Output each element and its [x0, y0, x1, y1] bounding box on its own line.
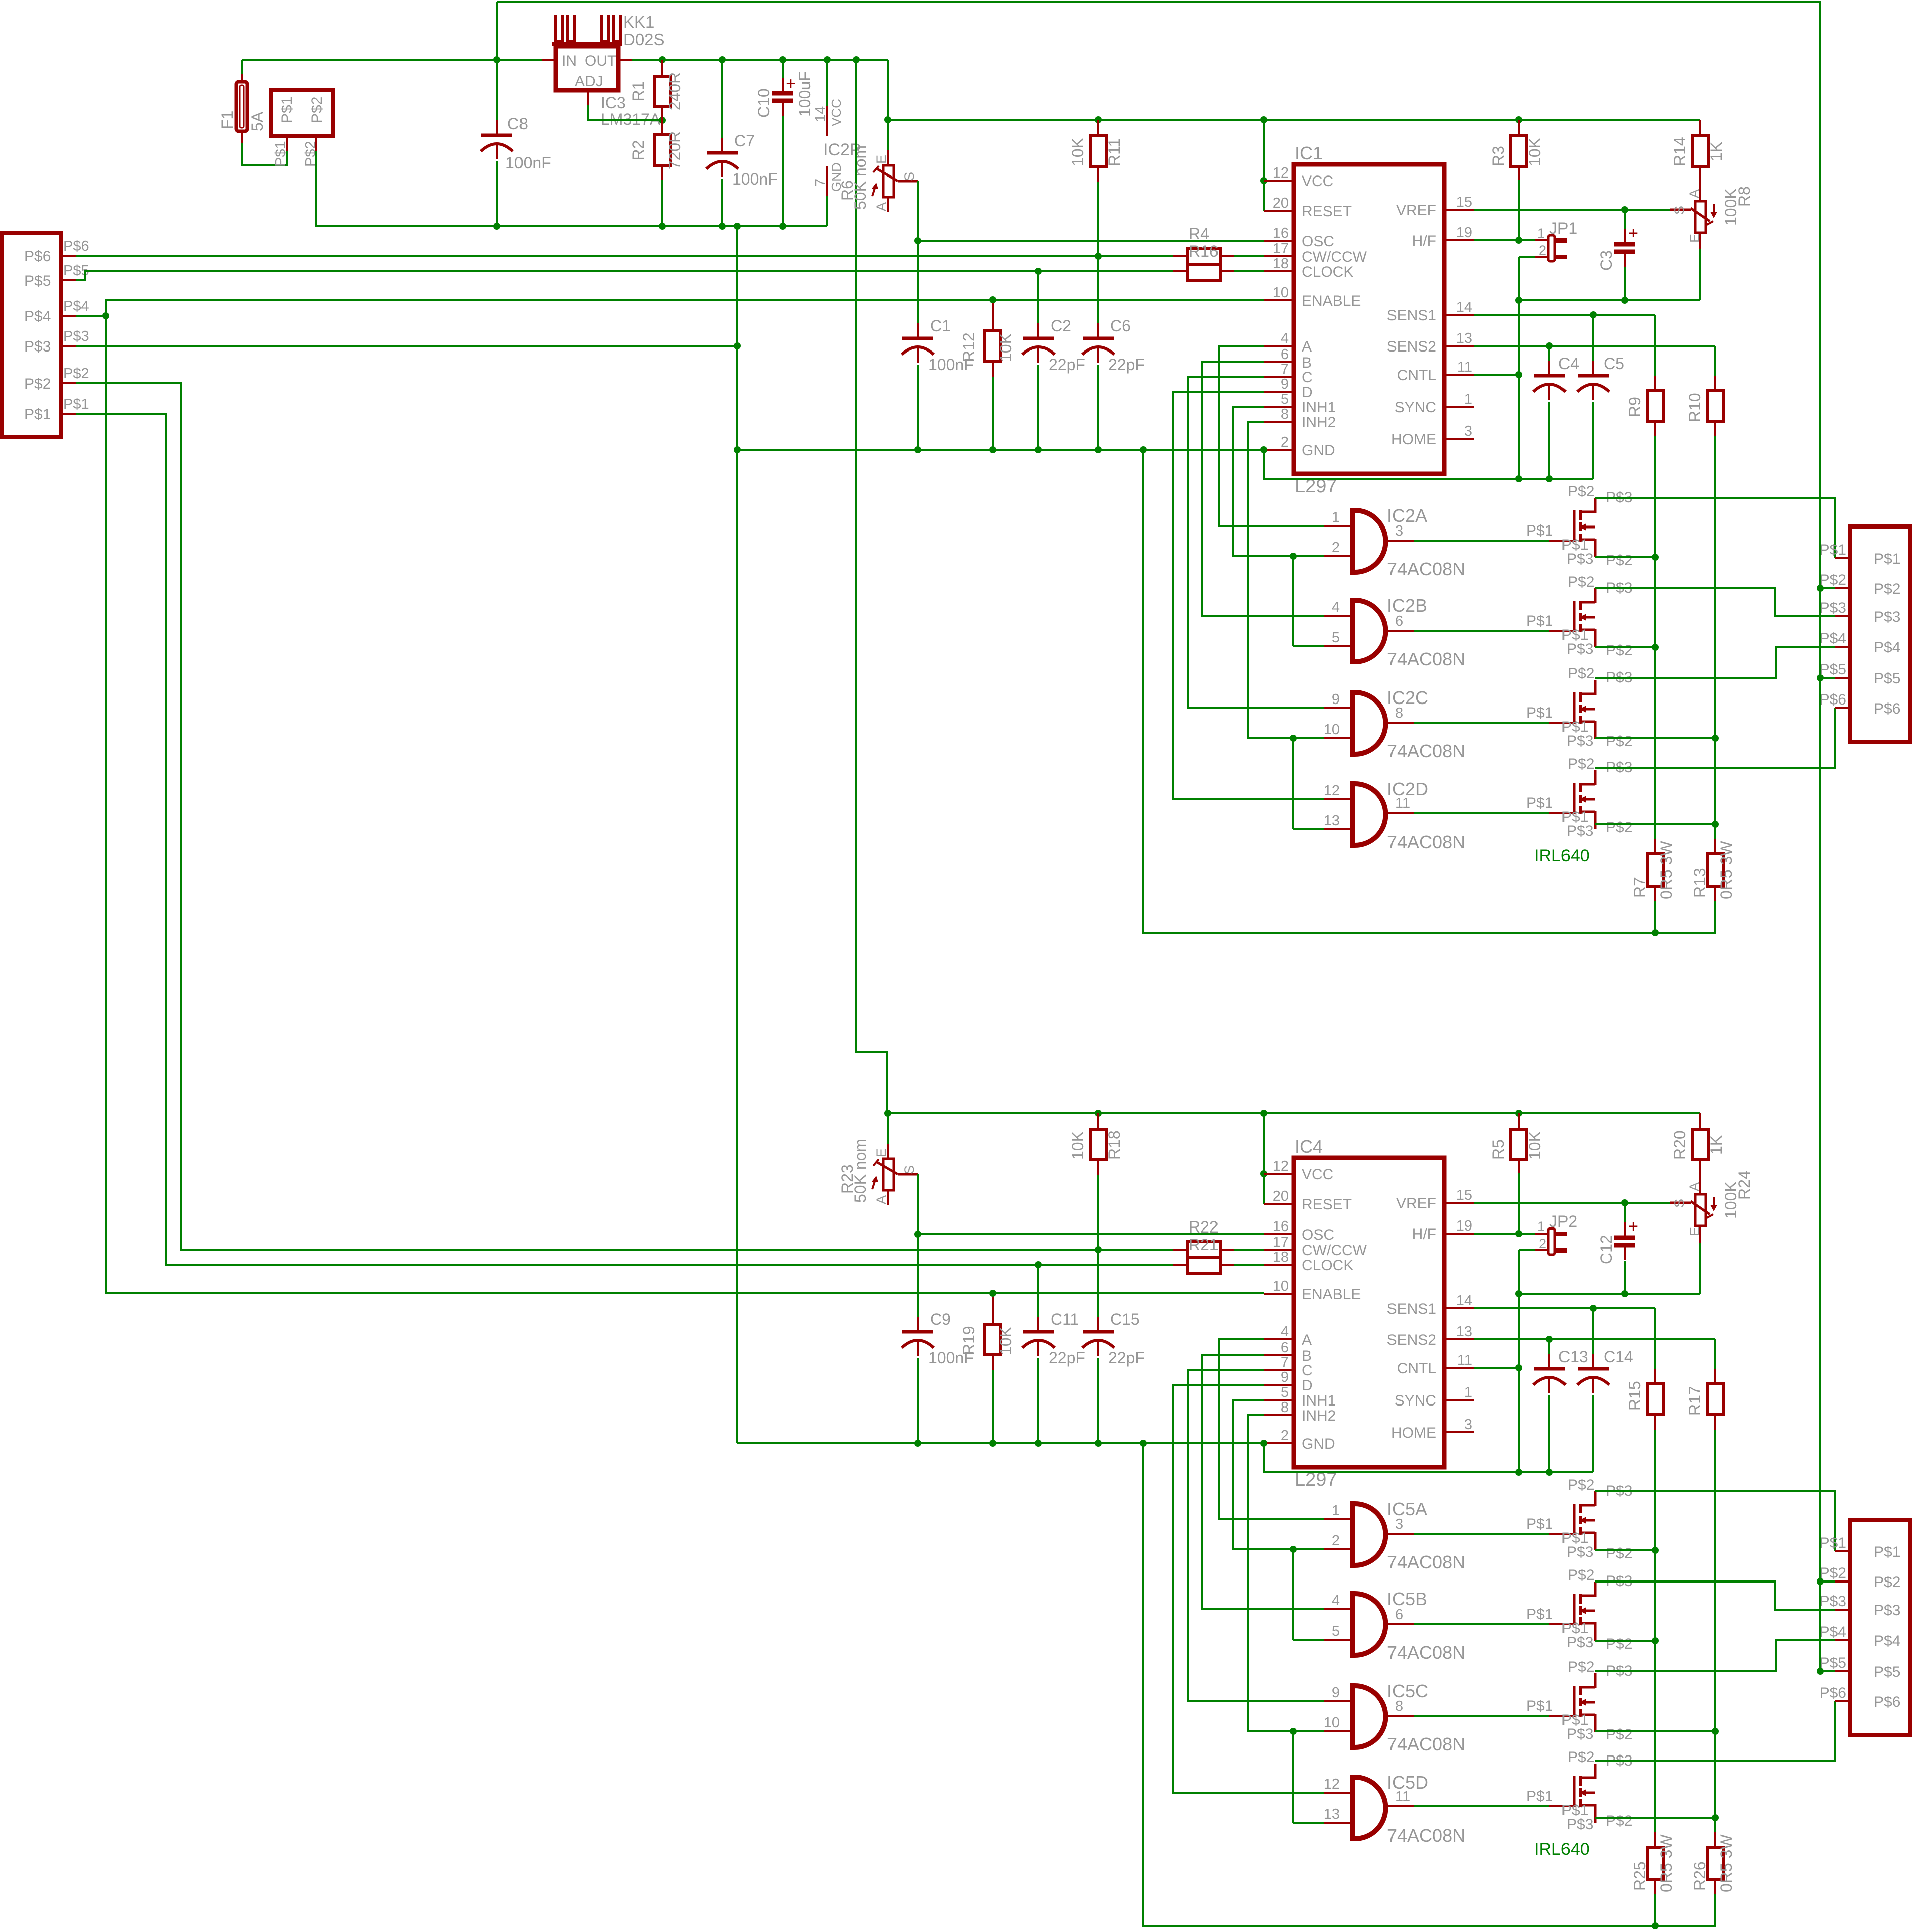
connector X1 control input	[2, 233, 61, 437]
svg-text:7: 7	[1281, 361, 1289, 377]
junction	[1095, 1246, 1102, 1253]
wire shunt ground	[1143, 1443, 1715, 1926]
svg-text:JP2: JP2	[1549, 1212, 1577, 1231]
wire pull-up to CW/CCW line	[1097, 182, 1099, 323]
wire H/F line	[1474, 239, 1535, 241]
svg-text:SENS1: SENS1	[1387, 307, 1436, 324]
svg-text:10K: 10K	[1526, 138, 1544, 166]
wire drain row d to P$6	[1595, 708, 1835, 768]
wire CNTL node vertical	[1518, 1294, 1520, 1472]
svg-text:10K: 10K	[1069, 1131, 1087, 1160]
svg-text:15: 15	[1456, 194, 1472, 210]
svg-text:17: 17	[1273, 1234, 1289, 1250]
AND gate IC2B 74AC08N	[1353, 600, 1386, 662]
svg-text:12: 12	[1273, 165, 1289, 181]
svg-text:74AC08N: 74AC08N	[1387, 1825, 1465, 1846]
wire cw cap bottom	[1097, 365, 1099, 450]
svg-text:S: S	[902, 172, 917, 181]
wire C7 top	[721, 60, 723, 138]
svg-text:C9: C9	[930, 1310, 951, 1328]
svg-text:P$1: P$1	[1526, 1698, 1553, 1714]
wire CNTL to node	[1474, 1367, 1519, 1369]
wire H/F pull-up vertical	[1518, 180, 1520, 240]
svg-text:3: 3	[1464, 423, 1472, 439]
wire VCC/RESET tie	[1263, 1113, 1265, 1204]
wire MOSFET source row b	[1595, 646, 1655, 648]
svg-text:P$1: P$1	[1874, 551, 1900, 567]
svg-text:IC4: IC4	[1295, 1136, 1323, 1157]
capacitor C3	[1624, 229, 1626, 244]
wire INH1 to gate inputs	[1293, 555, 1324, 557]
wire ENABLE to IC4 pin 10	[106, 316, 1264, 1293]
wire clk cap top	[1037, 271, 1039, 323]
wire osc cap bottom	[917, 1358, 919, 1443]
AND gate IC5A 74AC08N	[1353, 1504, 1386, 1565]
junction	[1515, 1469, 1522, 1476]
svg-text:16: 16	[1273, 225, 1289, 241]
svg-text:P$3: P$3	[24, 338, 51, 355]
svg-text:C13: C13	[1558, 1348, 1588, 1366]
svg-text:P$5: P$5	[24, 273, 51, 289]
svg-text:6: 6	[1281, 1340, 1289, 1356]
wire phase A	[1219, 346, 1324, 526]
jumper JP1	[1548, 235, 1555, 261]
svg-text:IC5A: IC5A	[1387, 1499, 1427, 1519]
svg-text:R18: R18	[1105, 1130, 1123, 1160]
wire osc cap bottom	[917, 365, 919, 450]
svg-text:P$3: P$3	[1567, 641, 1593, 657]
wire +V input vertical	[496, 2, 498, 60]
svg-text:12: 12	[1273, 1158, 1289, 1174]
junction	[1590, 311, 1597, 318]
svg-text:C: C	[1302, 369, 1313, 386]
wire SENS1 to R	[1654, 1308, 1656, 1369]
svg-text:11: 11	[1457, 359, 1472, 375]
junction	[1546, 1469, 1553, 1476]
resistor R16	[1188, 264, 1220, 280]
svg-text:P$2: P$2	[1568, 483, 1594, 500]
svg-text:P$3: P$3	[63, 328, 89, 344]
svg-text:1: 1	[1537, 1219, 1545, 1234]
svg-text:R10: R10	[1686, 393, 1704, 422]
wire C8 top	[496, 60, 498, 120]
trimpot R23	[883, 1159, 894, 1190]
wire motor supply to P$2	[1820, 587, 1835, 589]
svg-text:IC2B: IC2B	[1387, 595, 1427, 616]
svg-text:P$2: P$2	[1820, 572, 1846, 588]
svg-text:10K: 10K	[997, 333, 1015, 362]
wire phase B	[1202, 1355, 1324, 1609]
wire rail to trimpot E	[887, 120, 889, 150]
wire X2 P$2 to ground rail	[316, 151, 827, 226]
wire pull-up to CW/CCW line	[1097, 1175, 1099, 1317]
svg-text:0R5 3W: 0R5 3W	[1657, 841, 1675, 899]
junction	[1140, 1440, 1147, 1447]
svg-text:P$4: P$4	[1820, 630, 1846, 647]
svg-text:12: 12	[1324, 783, 1340, 799]
svg-text:IRL640: IRL640	[1534, 846, 1590, 865]
resistor R7 0R5 3W	[1654, 839, 1656, 854]
junction	[1035, 1261, 1042, 1268]
svg-text:14: 14	[813, 106, 829, 122]
svg-text:P$6: P$6	[1874, 700, 1900, 717]
svg-text:IC2D: IC2D	[1387, 779, 1428, 799]
svg-text:P$3: P$3	[1820, 600, 1846, 616]
junction	[1546, 1336, 1553, 1343]
svg-text:A: A	[1302, 338, 1312, 355]
svg-text:P$1: P$1	[1820, 542, 1846, 558]
wire phase C	[1188, 377, 1324, 708]
svg-text:P$1: P$1	[63, 396, 89, 412]
resistor R13 0R5 3W	[1714, 839, 1716, 854]
svg-text:D: D	[1302, 384, 1313, 401]
svg-text:IN: IN	[562, 53, 577, 69]
junction	[734, 342, 741, 349]
svg-text:10: 10	[1324, 1715, 1340, 1731]
svg-text:P$2: P$2	[1606, 642, 1632, 659]
wire clk cap bottom	[1037, 1358, 1039, 1443]
svg-text:P$4: P$4	[1874, 1633, 1900, 1649]
svg-text:7: 7	[1281, 1354, 1289, 1370]
wire phase D	[1173, 1385, 1324, 1793]
wire trimpot S to OSC	[917, 1174, 919, 1234]
svg-text:CLOCK: CLOCK	[1302, 1257, 1353, 1274]
svg-text:CW/CCW: CW/CCW	[1302, 249, 1367, 265]
svg-text:10K: 10K	[1526, 1131, 1544, 1160]
svg-text:HOME: HOME	[1391, 1425, 1436, 1441]
svg-text:20: 20	[1273, 1188, 1289, 1204]
svg-text:P$4: P$4	[1874, 639, 1900, 656]
junction	[1515, 116, 1522, 123]
wire INH1 to gate inputs	[1293, 1548, 1324, 1550]
svg-text:R26: R26	[1691, 1861, 1709, 1891]
svg-text:SENS2: SENS2	[1387, 1332, 1436, 1348]
svg-text:P$1: P$1	[273, 141, 289, 167]
svg-text:VCC: VCC	[1302, 1166, 1333, 1183]
resistor R17	[1707, 1384, 1723, 1415]
junction	[1515, 1110, 1522, 1117]
svg-text:VCC: VCC	[1302, 173, 1333, 190]
svg-text:19: 19	[1456, 225, 1472, 241]
resistor R25 0R5 3W	[1654, 1832, 1656, 1847]
svg-text:C8: C8	[507, 115, 528, 133]
svg-text:4: 4	[1281, 330, 1289, 346]
svg-text:P$2: P$2	[1568, 665, 1594, 682]
svg-text:P$5: P$5	[1874, 1664, 1900, 1680]
trimpot R24	[1695, 1194, 1706, 1226]
AND gate IC5C 74AC08N	[1353, 1686, 1386, 1747]
svg-text:+: +	[786, 74, 796, 93]
svg-text:C: C	[1302, 1362, 1313, 1379]
resistor R5 10K	[1511, 1129, 1527, 1160]
svg-text:P$5: P$5	[1874, 670, 1900, 687]
svg-text:E: E	[874, 1148, 889, 1157]
wire motor supply to P$5	[1820, 1670, 1835, 1672]
capacitor C14	[1592, 1354, 1594, 1369]
svg-text:P$5: P$5	[1820, 661, 1846, 678]
svg-text:INH1: INH1	[1302, 399, 1336, 416]
svg-text:2: 2	[1281, 434, 1289, 450]
wire SENS1 to R	[1654, 315, 1656, 376]
wire INH1	[1233, 407, 1293, 556]
svg-text:+: +	[1628, 1217, 1638, 1236]
svg-text:2: 2	[1539, 243, 1546, 258]
trimpot R8	[1695, 201, 1706, 233]
svg-text:JP1: JP1	[1549, 219, 1577, 237]
resistor R26 0R5 3W	[1714, 1832, 1716, 1847]
svg-text:INH2: INH2	[1302, 1408, 1336, 1424]
junction	[1712, 821, 1719, 828]
wire gate output to MOSFET gate	[1414, 812, 1549, 814]
junction	[659, 56, 666, 63]
wire JP pin2	[1519, 256, 1535, 258]
junction	[1621, 297, 1628, 304]
svg-text:100nF: 100nF	[505, 154, 551, 172]
wire enable res bottom	[992, 1370, 994, 1443]
wire OSC line	[918, 240, 1264, 242]
junction	[719, 223, 726, 230]
svg-text:P$2: P$2	[24, 376, 51, 392]
svg-text:P$1: P$1	[1820, 1535, 1846, 1551]
wire INH1	[1233, 1400, 1293, 1549]
capacitor C11	[1037, 1317, 1039, 1332]
svg-text:E: E	[874, 155, 889, 164]
junction	[493, 223, 500, 230]
svg-text:P$1: P$1	[1526, 705, 1553, 721]
wire CNTL node line	[1519, 299, 1700, 301]
resistor R20 1K	[1692, 1129, 1708, 1160]
svg-text:5: 5	[1332, 630, 1340, 646]
wire phase A	[1219, 1339, 1324, 1519]
junction	[1290, 1728, 1297, 1735]
svg-text:INH1: INH1	[1302, 1392, 1336, 1409]
wire INH2 to gate inputs	[1293, 1730, 1324, 1732]
svg-text:R12: R12	[960, 332, 978, 362]
junction	[1546, 475, 1553, 482]
wire Cv top	[1624, 210, 1626, 229]
wire gate output to MOSFET gate	[1414, 1715, 1549, 1717]
junction	[779, 223, 786, 230]
transistor IRL640 row d	[1549, 812, 1575, 814]
junction	[1515, 1290, 1522, 1297]
resistor R22	[1188, 1242, 1220, 1258]
svg-text:13: 13	[1324, 1806, 1340, 1822]
wire SENS1 line	[1474, 1307, 1655, 1309]
wire gate output to MOSFET gate	[1414, 630, 1549, 632]
svg-text:5A: 5A	[248, 111, 266, 131]
wire motor supply to P$5	[1820, 677, 1835, 679]
wire MOSFET source row a	[1595, 556, 1655, 558]
svg-text:P$2: P$2	[1606, 1813, 1632, 1829]
resistor R2 720R	[654, 135, 670, 165]
svg-text:D02S: D02S	[623, 30, 665, 49]
svg-text:R5: R5	[1489, 1139, 1507, 1160]
wire JP pin2	[1519, 1249, 1535, 1251]
wire GND rail	[737, 449, 1264, 451]
svg-text:CNTL: CNTL	[1397, 367, 1436, 384]
junction	[989, 296, 996, 303]
capacitor C13	[1548, 1354, 1550, 1369]
wire CNTL node vertical	[1518, 300, 1520, 479]
junction	[989, 1290, 996, 1297]
svg-text:10: 10	[1273, 1278, 1289, 1294]
wire clk cap top	[1037, 1265, 1039, 1317]
svg-text:P$2: P$2	[1606, 1636, 1632, 1652]
junction	[914, 237, 921, 244]
capacitor C1	[917, 323, 919, 338]
wire +5V rail from OUT	[618, 59, 632, 61]
svg-text:SYNC: SYNC	[1395, 399, 1436, 416]
junction	[1260, 116, 1267, 123]
svg-text:0R5 3W: 0R5 3W	[1657, 1834, 1675, 1892]
junction	[1817, 1578, 1824, 1585]
wire fuse to connector X2 pin P$1	[241, 131, 243, 143]
svg-text:1: 1	[1537, 226, 1545, 241]
svg-text:1: 1	[1464, 391, 1472, 407]
svg-text:R17: R17	[1686, 1386, 1704, 1416]
wire osc cap top	[917, 1234, 919, 1317]
wire enable res bottom	[992, 377, 994, 450]
junction	[989, 446, 996, 453]
connector X2 power input	[271, 90, 333, 136]
svg-text:C5: C5	[1604, 355, 1624, 373]
svg-text:R22: R22	[1189, 1218, 1219, 1236]
svg-text:74AC08N: 74AC08N	[1387, 559, 1465, 579]
junction	[884, 116, 891, 123]
svg-text:HOME: HOME	[1391, 431, 1436, 448]
svg-text:P$2: P$2	[1568, 1749, 1594, 1766]
svg-text:SYNC: SYNC	[1395, 1392, 1436, 1409]
resistor R11	[1090, 136, 1106, 166]
svg-text:9: 9	[1281, 376, 1289, 392]
transistor IRL640 row a	[1549, 540, 1575, 542]
svg-text:C3: C3	[1597, 250, 1615, 271]
junction	[853, 56, 860, 63]
junction	[1035, 268, 1042, 275]
resistor R18	[1090, 1129, 1106, 1160]
wire drain row b to P$3	[1595, 1582, 1835, 1610]
transistor IRL640 row b	[1549, 1623, 1575, 1625]
svg-text:2: 2	[1281, 1428, 1289, 1444]
resistor R3 10K	[1511, 136, 1527, 166]
wire sense bus 2	[1714, 1430, 1716, 1832]
svg-text:P$2: P$2	[1568, 1567, 1594, 1584]
svg-text:2: 2	[1539, 1236, 1546, 1251]
svg-text:18: 18	[1273, 1249, 1289, 1265]
wire CW/CCW 2 from P$2 to section 2	[76, 383, 1173, 1250]
wire cw cap bottom	[1097, 1358, 1099, 1443]
svg-text:R1: R1	[629, 81, 647, 102]
svg-text:6: 6	[1281, 346, 1289, 363]
svg-text:P$6: P$6	[1820, 1685, 1846, 1701]
svg-text:P$3: P$3	[1567, 823, 1593, 839]
svg-text:0R5 3W: 0R5 3W	[1717, 1834, 1735, 1892]
wire fuse top	[241, 60, 243, 74]
resistor R10	[1707, 391, 1723, 421]
svg-text:R19: R19	[960, 1326, 978, 1355]
junction	[914, 1231, 921, 1238]
svg-text:IC5D: IC5D	[1387, 1772, 1428, 1793]
wire +5V logic rail	[888, 1112, 1700, 1114]
svg-text:H/F: H/F	[1412, 233, 1436, 249]
svg-text:1K: 1K	[1707, 1135, 1725, 1155]
svg-text:74AC08N: 74AC08N	[1387, 649, 1465, 669]
svg-text:P$2: P$2	[309, 97, 325, 123]
jumper JP2	[1548, 1228, 1555, 1255]
junction	[1652, 1547, 1659, 1554]
wire C7 bottom	[721, 179, 723, 226]
wire trimpot S to OSC	[917, 181, 919, 241]
wire MOSFET source row d	[1595, 823, 1715, 825]
wire VCC/RESET tie	[1263, 120, 1265, 211]
svg-text:P$4: P$4	[1820, 1624, 1846, 1640]
svg-text:P$3: P$3	[1567, 1816, 1593, 1833]
junction	[989, 1440, 996, 1447]
svg-text:1: 1	[1332, 1503, 1340, 1519]
wire +V motor top rail to right-side bus	[497, 2, 1820, 1671]
svg-text:17: 17	[1273, 241, 1289, 257]
svg-text:C6: C6	[1110, 317, 1131, 335]
resistor R1 240R	[654, 76, 670, 107]
wire +5V to logic rail corner	[887, 60, 889, 120]
wire gate output to MOSFET gate	[1414, 722, 1549, 724]
junction	[1652, 644, 1659, 651]
capacitor C9	[917, 1317, 919, 1332]
junction	[914, 1440, 921, 1447]
svg-text:A: A	[1302, 1332, 1312, 1348]
junction	[1095, 446, 1102, 453]
wire +V input rail y119	[242, 59, 542, 61]
svg-text:ADJ: ADJ	[575, 73, 603, 90]
svg-text:P$5: P$5	[1820, 1655, 1846, 1671]
svg-text:2: 2	[1332, 540, 1340, 556]
svg-text:P$1: P$1	[279, 97, 295, 123]
svg-text:R4: R4	[1189, 225, 1209, 243]
svg-text:5: 5	[1332, 1623, 1340, 1639]
svg-text:KK1: KK1	[623, 13, 654, 31]
svg-text:F1: F1	[218, 111, 236, 129]
svg-text:P$1: P$1	[1874, 1544, 1900, 1560]
svg-text:R25: R25	[1631, 1861, 1649, 1891]
junction	[1712, 1814, 1719, 1821]
svg-text:R15: R15	[1626, 1381, 1644, 1411]
junction	[1546, 342, 1553, 349]
junction	[1095, 1110, 1102, 1117]
resistor R4	[1188, 248, 1220, 264]
junction	[1817, 1668, 1824, 1675]
svg-text:1: 1	[1332, 509, 1340, 525]
svg-text:VCC: VCC	[829, 99, 844, 126]
AND gate IC2D 74AC08N	[1353, 784, 1386, 845]
svg-text:R2: R2	[629, 140, 647, 161]
svg-text:+: +	[1628, 224, 1638, 243]
svg-text:P$1: P$1	[1526, 1788, 1553, 1805]
capacitor C7	[721, 138, 723, 153]
svg-text:S: S	[902, 1165, 917, 1174]
wire Cv top	[1624, 1203, 1626, 1222]
svg-text:P$2: P$2	[1874, 581, 1900, 597]
wire SENS2 line	[1474, 345, 1715, 347]
wire osc cap top	[917, 241, 919, 323]
wire shunt 1 bottom	[1654, 1894, 1656, 1926]
svg-text:P$3: P$3	[1567, 551, 1593, 567]
svg-text:13: 13	[1456, 1324, 1472, 1340]
junction	[1621, 1290, 1628, 1297]
svg-text:5: 5	[1281, 391, 1289, 407]
junction	[1817, 585, 1824, 592]
wire shunt ground	[1143, 450, 1715, 933]
svg-text:10K: 10K	[1069, 138, 1087, 166]
